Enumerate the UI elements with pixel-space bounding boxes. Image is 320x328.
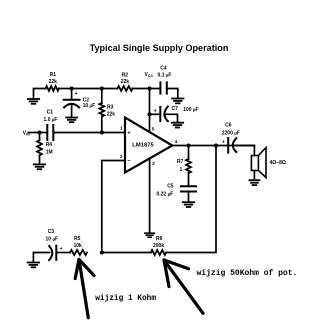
wire C3 to ground xyxy=(33,253,49,263)
svg-text:C5: C5 xyxy=(167,183,174,189)
svg-text:C1: C1 xyxy=(47,110,54,116)
node input xyxy=(37,130,41,134)
ground G4 under pin3 xyxy=(145,233,155,237)
wire top rail middle xyxy=(59,88,117,90)
capacitor C3 xyxy=(46,229,63,260)
capacitor C5 xyxy=(156,183,196,201)
svg-text:3: 3 xyxy=(152,161,155,167)
wire R5 to C3 xyxy=(57,252,70,254)
ground G7 bottom-left xyxy=(28,263,39,268)
svg-text:C7: C7 xyxy=(172,106,179,112)
annotation arrow at R5 xyxy=(75,260,94,318)
svg-text:R7: R7 xyxy=(177,159,184,165)
node J2 (R3 tap) xyxy=(100,86,104,90)
wire C1 to pin1 xyxy=(53,132,125,134)
node J1 (C2 tap) xyxy=(70,86,74,90)
svg-text:R1: R1 xyxy=(50,72,57,78)
svg-text:−: − xyxy=(127,159,131,165)
wire feedback vertical right xyxy=(166,146,216,253)
svg-text:R2: R2 xyxy=(122,72,129,78)
svg-text:C4: C4 xyxy=(160,66,167,72)
svg-text:VIN: VIN xyxy=(23,130,30,136)
svg-text:0.1 µF: 0.1 µF xyxy=(158,73,172,79)
wire C6 to speaker xyxy=(233,146,255,156)
svg-text:5: 5 xyxy=(152,127,155,133)
svg-text:100 µF: 100 µF xyxy=(183,107,198,113)
svg-text:10 µF: 10 µF xyxy=(46,236,59,242)
svg-text:4Ω–8Ω: 4Ω–8Ω xyxy=(270,160,286,166)
svg-text:2200 µF: 2200 µF xyxy=(222,131,240,137)
svg-text:wijzig 50Kohm of pot.: wijzig 50Kohm of pot. xyxy=(197,269,298,278)
svg-text:+: + xyxy=(60,246,63,252)
svg-text:10k: 10k xyxy=(74,243,83,249)
node C7 tap xyxy=(147,112,151,116)
wire output xyxy=(172,145,254,147)
ground G9 under speaker xyxy=(249,180,259,185)
wire pin2 to feedback node xyxy=(102,161,125,253)
op-amp U1 LM1875 xyxy=(125,118,172,173)
capacitor C7 xyxy=(150,106,199,122)
svg-text:10 µF: 10 µF xyxy=(83,103,96,109)
node output R7 tap xyxy=(186,143,190,147)
capacitor C2 xyxy=(64,89,95,118)
svg-text:22k: 22k xyxy=(49,79,58,85)
capacitor C6 xyxy=(222,122,240,152)
ground G8 under C2 xyxy=(66,118,77,123)
svg-text:1M: 1M xyxy=(46,150,53,156)
svg-text:C3: C3 xyxy=(48,229,55,235)
svg-text:22k: 22k xyxy=(121,79,130,85)
resistor R5 xyxy=(70,250,87,255)
svg-text:2: 2 xyxy=(120,154,123,160)
svg-text:VCC: VCC xyxy=(145,72,154,78)
wire pin3 to ground xyxy=(149,159,151,233)
ground G2 under C4 xyxy=(172,99,183,104)
svg-text:+: + xyxy=(154,108,157,114)
speaker LS1 xyxy=(251,148,285,180)
node output feedback tap xyxy=(214,143,218,147)
svg-text:R4: R4 xyxy=(46,142,53,148)
ground G1 top-left xyxy=(28,99,39,104)
node feedback junction xyxy=(100,251,104,255)
ground G3 under C7 xyxy=(172,123,183,128)
svg-text:R5: R5 xyxy=(74,236,81,242)
svg-text:1: 1 xyxy=(120,126,123,132)
svg-text:1: 1 xyxy=(180,167,183,173)
ground G5 under C5 xyxy=(183,202,194,207)
capacitor C4 xyxy=(158,66,178,98)
svg-text:+: + xyxy=(222,139,225,145)
resistor R2 xyxy=(117,86,132,91)
svg-text:200k: 200k xyxy=(153,243,164,249)
resistor R3 xyxy=(99,89,115,133)
node Vcc xyxy=(147,86,151,90)
ground G6 under R4 xyxy=(34,164,45,169)
svg-text:LM1875: LM1875 xyxy=(132,142,154,148)
resistor R6 xyxy=(151,236,166,255)
capacitor C1 xyxy=(44,110,58,141)
wire R2 to Vcc node to C4 xyxy=(133,88,161,90)
svg-text:22k: 22k xyxy=(107,112,116,118)
svg-text:C6: C6 xyxy=(225,122,232,128)
wire input xyxy=(28,132,47,134)
resistor R7 xyxy=(177,146,191,187)
svg-text:1.0 µF: 1.0 µF xyxy=(44,117,58,123)
svg-text:R6: R6 xyxy=(156,236,163,242)
svg-text:wijzig 1 Kohm: wijzig 1 Kohm xyxy=(95,295,156,303)
svg-text:Typical Single Supply Operatio: Typical Single Supply Operation xyxy=(90,43,229,53)
resistor R4 xyxy=(37,133,53,164)
svg-text:R3: R3 xyxy=(107,104,114,110)
annotation arrow at R6 xyxy=(164,260,203,313)
svg-text:0.22 µF: 0.22 µF xyxy=(156,191,173,197)
node pin1/R3 junction xyxy=(100,130,104,134)
svg-text:4: 4 xyxy=(175,139,178,145)
wire top rail left segment xyxy=(34,89,46,99)
svg-text:+: + xyxy=(75,91,78,97)
wire bottom rail xyxy=(102,252,151,254)
wire Vcc vertical to pin 5 xyxy=(149,89,151,133)
svg-text:+: + xyxy=(127,131,131,137)
resistor R1 xyxy=(46,86,59,91)
